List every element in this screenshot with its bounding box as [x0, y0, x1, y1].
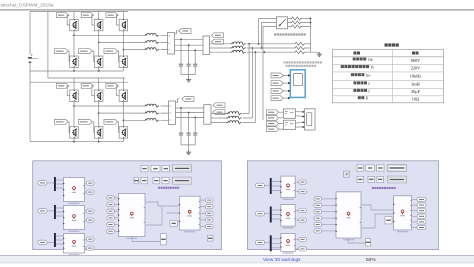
- constant/display block P1 top2: [151, 165, 160, 172]
- IGBT B2Q5 lower: [94, 127, 103, 139]
- wire load Rc to star: [306, 51, 311, 53]
- wire P1 bottom stub: [132, 236, 161, 242]
- wire measurement2 to goto: [176, 99, 180, 103]
- wire B1 phase B: [99, 41, 144, 43]
- node B1 phase 3 junction: [123, 49, 125, 51]
- wire P2 block-outs row2: [295, 211, 299, 221]
- wire P2 mux-block row1: [272, 182, 281, 191]
- subsystem P2 phase-leg 2: [280, 205, 295, 229]
- wire B1 phase C: [123, 49, 143, 51]
- goto tag Iabc1: [211, 33, 223, 38]
- svg-text:View 33 warnings: View 33 warnings: [263, 257, 301, 263]
- terminator P1: [207, 236, 213, 242]
- node B2 DC- junctions: [73, 141, 75, 143]
- table row label: [354, 81, 357, 84]
- table title 电路参数: [385, 43, 388, 46]
- wire P2 tag-mux row1: [265, 184, 270, 186]
- three-phase VI measurement block B1: [168, 33, 175, 55]
- wire P2 right1: [412, 199, 418, 201]
- inductor B2 L2a: [226, 112, 242, 115]
- capacitor C1 B2: [179, 133, 183, 135]
- svg-text:Vo: Vo: [370, 66, 374, 70]
- svg-text:L: L: [367, 82, 370, 86]
- goto tag P1 right3: [206, 211, 214, 215]
- wire load star bus: [311, 17, 320, 52]
- constant/display block P2 top5: [357, 176, 364, 182]
- controller subsystem P2: [336, 192, 361, 240]
- node B1 phase 1 junction: [73, 34, 75, 36]
- wire B1 leg 3: [122, 12, 124, 72]
- outport tag P1 row2b: [87, 218, 95, 222]
- wire P2 right3: [412, 210, 418, 212]
- resistor load Rb: [294, 46, 306, 49]
- from tag gate B2g1: [57, 83, 69, 88]
- inport tag P2 row2: [256, 212, 265, 216]
- wire B1 measurement to load block: [175, 39, 204, 50]
- wire scope input 2: [283, 82, 290, 84]
- wire B2 DC+ bus: [30, 81, 128, 83]
- wire B1 L2 to load: [247, 44, 294, 52]
- inductor B1L1c: [144, 48, 160, 51]
- wire bridge2 DC+ bus link: [48, 78, 126, 82]
- table row line: [333, 95, 444, 97]
- from tag scope input 3: [271, 89, 283, 94]
- node cap tap 3 B1: [194, 49, 196, 51]
- svg-text:fsw: fsw: [366, 74, 371, 78]
- table column divider: [391, 49, 393, 103]
- wire P2 controller to PWM: [361, 205, 394, 228]
- inductor B2 L2b: [226, 116, 242, 119]
- scope block lower: [305, 109, 315, 130]
- wire breaker-Ra: [288, 18, 311, 20]
- wire gate B1g4: [68, 51, 69, 62]
- table header separator: [333, 56, 444, 58]
- wire P2 tag-mux row2: [265, 213, 270, 215]
- svg-text:C: C: [368, 89, 371, 93]
- constant/display block P2 top4: [387, 165, 406, 172]
- from tag P2 mid3: [314, 210, 322, 214]
- outport tag P1 row3b: [87, 246, 95, 250]
- capacitor C3 B2: [193, 133, 197, 135]
- wire P1 right4: [200, 219, 206, 221]
- annotation above scope (line1): [284, 61, 286, 63]
- IGBT B2Q4 lower: [70, 127, 79, 139]
- wire P2 right6: [412, 227, 418, 229]
- from tag gate B2g3: [106, 83, 118, 88]
- constant/display block P1 top3: [162, 165, 170, 172]
- resistor load Rc: [294, 51, 306, 54]
- inductor B1 L2b: [230, 46, 246, 49]
- constant/display block P1 top5: [134, 177, 139, 184]
- wire gate B2g5: [92, 122, 94, 133]
- wire B2 DC- bus: [30, 141, 123, 143]
- wire B2 L1 to measurement: [161, 106, 169, 120]
- mux P2 row1: [270, 178, 272, 194]
- outport tag P1 row2a: [87, 209, 95, 213]
- constant/display block P2 top1: [357, 165, 364, 171]
- node B2 phase 3 junction: [123, 119, 125, 121]
- subsystem P1 phase-leg 1: [63, 178, 84, 204]
- panel 1 background: [33, 161, 222, 250]
- goto tag Iabc2: [213, 103, 225, 108]
- node B1 DC- junctions: [73, 70, 75, 72]
- wire P1 right3: [200, 212, 206, 214]
- annotation fault label: [274, 33, 276, 35]
- wire P1 mid1: [114, 197, 118, 199]
- goto tag P1 right4: [206, 218, 214, 222]
- inport tag P2 row1: [256, 183, 265, 187]
- goto tag Vab2: [213, 110, 225, 115]
- inport tag P1 row3: [38, 240, 47, 244]
- inport tag P1 row1: [38, 181, 47, 185]
- IGBT B1Q4 lower: [70, 56, 79, 68]
- outport tag P1 row1b: [87, 190, 95, 194]
- table row label: [341, 65, 344, 68]
- inductor B2L1c: [144, 118, 160, 121]
- from tag P1 mid3: [107, 209, 115, 213]
- wire P1 mux-block row2: [56, 208, 64, 216]
- goto tag P1 right2: [206, 205, 214, 209]
- annotation P1 purple text: [158, 187, 160, 189]
- outport tag P1 row1a: [87, 181, 95, 185]
- wire P2 mux-block row2: [272, 210, 281, 219]
- wire P2 block-outs row3: [295, 239, 299, 249]
- node cap tap 3 B2: [194, 117, 196, 119]
- from tag P2 mid4: [314, 216, 322, 220]
- wire gate B1g2: [92, 15, 95, 25]
- from tag P2 mid5: [314, 222, 322, 226]
- goto tag P1 right1: [206, 198, 214, 202]
- outport tag P2 row1b: [299, 190, 307, 194]
- mux P1 row3: [54, 233, 56, 247]
- svg-text:10kHz: 10kHz: [410, 74, 422, 79]
- wire gate B2g2: [92, 86, 95, 96]
- wire P2 mux-block row3: [272, 239, 281, 248]
- wire B2 phase A: [74, 105, 144, 107]
- from tag P1 mid4: [107, 216, 115, 220]
- table row label: [358, 96, 361, 99]
- wire P1 block-outs row2: [85, 211, 87, 220]
- goto tag P1 right5: [206, 224, 214, 228]
- wire gate B2g6: [118, 122, 119, 133]
- wire cap branch 1 B1: [180, 39, 182, 74]
- IGBT B1Q1 upper: [70, 19, 79, 31]
- wire P2 bottom stub: [348, 238, 366, 243]
- wire P1 controller to PWM: [146, 202, 179, 225]
- constant/display block P2 top7: [377, 176, 384, 182]
- wire P2 mid5: [322, 224, 337, 226]
- selector block group1: [283, 109, 295, 118]
- mini block P2: [366, 239, 371, 246]
- wire P1 mid3: [114, 210, 118, 212]
- three-phase VI measurement block B2: [169, 101, 176, 125]
- outport tag P2 row2b: [299, 218, 307, 222]
- table header 数值: [412, 52, 415, 55]
- from tag group1 a: [267, 110, 279, 115]
- capacitor C1 B1: [179, 64, 183, 66]
- wire B2 leg 1: [73, 82, 75, 142]
- from tag gate B1g1: [57, 13, 69, 18]
- series block B1 (three-phase series branch): [203, 36, 210, 55]
- wire breaker-Rb: [288, 22, 311, 24]
- wire load Rb to star: [306, 47, 311, 49]
- resistor fault Rb: [291, 21, 303, 24]
- wire B1 DC- bus: [30, 70, 123, 72]
- table row label: [354, 89, 357, 92]
- table row line: [333, 71, 444, 73]
- mux P1 row1: [54, 177, 56, 191]
- IGBT B2Q1 upper: [70, 90, 79, 102]
- wire breaker feed B: [262, 23, 277, 49]
- ground load star: [317, 52, 322, 56]
- inductor B1L1b: [144, 41, 160, 44]
- wire DC- rail: [47, 12, 49, 79]
- wire group1 to scope2: [295, 112, 304, 117]
- wire P1 mid2: [114, 204, 118, 206]
- mux P2 row3: [270, 235, 272, 251]
- wire cap branch 2 B2: [188, 113, 190, 145]
- constant/display block P2 top8: [387, 176, 406, 183]
- goto tag P2 right5: [417, 220, 426, 224]
- wire riser phase C B2: [254, 52, 256, 122]
- table row line: [333, 87, 444, 89]
- wire P1 tag-mux row1: [47, 182, 54, 184]
- from tag gate B1g6: [104, 49, 118, 54]
- constant/display block P1 top7: [153, 177, 160, 184]
- scope subsystem selected (blue): [290, 70, 305, 98]
- subsystem P2 phase-leg 1: [280, 176, 295, 200]
- wire B2 leg 2: [98, 82, 100, 142]
- node cap tap 2 B1: [188, 44, 190, 46]
- DC voltage source Vdc: [28, 54, 38, 63]
- inductor B2L1b: [144, 111, 160, 114]
- from tag gate B2g6: [104, 119, 118, 124]
- outport tag P2 row3b: [299, 247, 307, 251]
- outport tag P1 row3a: [87, 237, 95, 241]
- wire B2 phase C: [123, 119, 143, 121]
- wire P1 right5: [200, 226, 206, 228]
- IGBT B2Q3 upper: [119, 90, 128, 102]
- wire P1 right2: [200, 206, 206, 208]
- mini block P1 tall: [161, 234, 167, 245]
- wire B2 leg 3: [122, 82, 124, 142]
- wire P1 right1: [200, 199, 206, 201]
- svg-text:220V: 220V: [411, 65, 421, 70]
- IGBT B1Q3 upper: [119, 19, 128, 31]
- resistor load Ra: [294, 42, 306, 45]
- from tag P1 mid5: [107, 222, 115, 226]
- table row line: [333, 63, 444, 65]
- svg-text:30μF: 30μF: [411, 89, 421, 94]
- PWM subsystem P1: [179, 196, 200, 232]
- wire load Ra to star: [306, 43, 311, 45]
- node B1 phase 2 junction: [98, 42, 100, 44]
- svg-text:Vdc: Vdc: [368, 58, 374, 62]
- goto tag Vabc2: [182, 97, 194, 102]
- wire cap branch 1 B2: [180, 108, 182, 145]
- display P2: [344, 171, 350, 177]
- wire P1 block-outs row1: [85, 183, 87, 192]
- from tag gate B1g5: [79, 49, 93, 54]
- constant/display block P1 top8: [162, 177, 169, 184]
- wire P1 tag-mux row2: [47, 210, 54, 212]
- capacitor C2 B2: [187, 133, 191, 135]
- wire DC+ rail: [29, 12, 31, 142]
- IGBT B1Q2 upper: [94, 19, 103, 31]
- wire P1 mux-block row3: [56, 236, 64, 244]
- from tag gate B1g3: [106, 13, 118, 18]
- outport tag P2 row3a: [299, 237, 307, 241]
- node cap tap 1 B2: [180, 107, 182, 109]
- from tag gate B1g2: [81, 13, 93, 18]
- wire P2 mid6: [322, 230, 337, 232]
- panel 2 background: [247, 161, 438, 250]
- IGBT B2Q6 lower: [119, 127, 128, 139]
- wire breaker feed A: [259, 19, 277, 44]
- wire P1 tag-mux row3: [47, 241, 54, 243]
- table row label: [353, 58, 356, 61]
- constant/display block P1 top1: [141, 165, 148, 172]
- inport tag P2 row3: [256, 240, 265, 244]
- wire P1 block-outs row3: [85, 239, 87, 248]
- from tag scope input 1: [271, 73, 283, 78]
- wire cap star bus B1: [181, 75, 195, 78]
- from tag gate B2g5: [79, 119, 93, 124]
- goto tag P2 right1: [417, 197, 426, 201]
- wire scope input 3: [283, 90, 290, 92]
- wire gate B2g3: [117, 86, 120, 96]
- node B2 phase 2 junction: [98, 112, 100, 114]
- wire B1 out rows: [210, 44, 231, 52]
- from tag gate B1g4: [55, 49, 69, 54]
- wire P1 mid6: [114, 230, 118, 232]
- from tag P2 mid1: [314, 197, 322, 201]
- wire group2 to scope2: [295, 122, 304, 127]
- from tag scope input 2: [271, 81, 283, 86]
- wire P2 tag-mux row3: [265, 242, 270, 244]
- subsystem P2 phase-leg 3: [280, 233, 295, 253]
- from tag P1 mid2: [107, 203, 115, 207]
- constant/display block P2 top3: [377, 165, 385, 171]
- svg-text:800V: 800V: [411, 58, 421, 63]
- from tag group2 b: [267, 127, 279, 132]
- wire B2 out rows: [211, 114, 226, 123]
- constant/display block P1 top4: [173, 165, 192, 172]
- IGBT B2Q2 upper: [94, 90, 103, 102]
- toolbar separator line: [0, 9, 474, 11]
- annotation above scope (line2): [286, 65, 288, 67]
- node cap tap 1 B1: [180, 38, 182, 40]
- mux P1 row2: [54, 205, 56, 219]
- wire P2 mid2: [322, 204, 337, 206]
- constant/display block P1 top9: [173, 177, 192, 184]
- inport tag P1 row2: [38, 209, 47, 213]
- wire breaker-Rc: [288, 26, 311, 28]
- wire B1 leg 1: [73, 12, 75, 72]
- inductor B2 L2c: [226, 121, 242, 124]
- mux P2 row2: [270, 207, 272, 223]
- table frame: [333, 49, 444, 103]
- capacitor C3 B1: [193, 64, 197, 66]
- from tag P2 mid2: [314, 203, 322, 207]
- svg-text:50%: 50%: [366, 257, 376, 263]
- wire cap branch 3 B1: [194, 50, 196, 74]
- resistor fault Ra: [291, 17, 303, 20]
- wire P2 mid4: [322, 217, 337, 219]
- svg-text:R: R: [365, 97, 369, 101]
- inductor B2L1a: [144, 104, 160, 107]
- wire P2 right2: [412, 204, 418, 206]
- from tag gate B2g4: [55, 119, 69, 124]
- goto tag Vab1: [211, 39, 223, 44]
- svg-text:10Ω: 10Ω: [412, 97, 420, 102]
- wire scope input 4: [283, 97, 290, 99]
- wire B2 phase B: [99, 112, 144, 114]
- svg-text:3mH: 3mH: [411, 82, 420, 87]
- node B2 phase 1 junction: [73, 105, 75, 107]
- display P1 small: [170, 221, 178, 227]
- wire group1 tags to block: [279, 112, 284, 118]
- goto tag P2 right2: [417, 203, 426, 207]
- from tag gate B2g2: [81, 83, 93, 88]
- inductor B1 L2a: [230, 42, 246, 45]
- wire B2 measurement to series block: [176, 108, 204, 118]
- wire P2 block-outs row1: [295, 182, 299, 192]
- ground B2 filter: [186, 150, 191, 154]
- wire P1 mux-block row1: [56, 180, 64, 188]
- wire gate B1g6: [118, 51, 119, 62]
- ground B1 filter: [186, 78, 191, 82]
- wire scope input 1: [283, 74, 290, 76]
- wire B2 L2 to risers: [243, 114, 255, 123]
- wire P2 right5: [412, 221, 418, 223]
- outport tag P2 row1a: [299, 180, 307, 184]
- wire P1 mid4: [114, 217, 118, 219]
- wire P1 mid5: [114, 224, 118, 226]
- from tag P1 mid1: [107, 196, 115, 200]
- wire cap star bus B2: [181, 145, 195, 150]
- status bar: [0, 255, 474, 263]
- node cap tap 2 B2: [188, 112, 190, 114]
- wire B1 L1 to measurement: [161, 35, 168, 49]
- three-phase breaker block: [277, 17, 288, 29]
- rate block P2: [385, 217, 392, 224]
- wire P2 mid1: [322, 198, 337, 200]
- capacitor C2 B1: [187, 64, 191, 66]
- svg-text:stischul_DSPWM_2018a: stischul_DSPWM_2018a: [1, 2, 54, 8]
- wire P2 mid3: [322, 211, 337, 213]
- goto tag P2 right3: [417, 209, 426, 213]
- wire cap branch 3 B2: [194, 118, 196, 145]
- wire group2 tags to block: [279, 124, 284, 130]
- constant/display block P2 top2: [366, 165, 375, 171]
- constant/display block P2 top6: [368, 176, 375, 182]
- table row label: [351, 73, 354, 76]
- wire breaker feed C: [263, 27, 277, 121]
- wire gate B2g1: [67, 86, 70, 96]
- table header 参数: [354, 52, 357, 55]
- series block B2: [204, 105, 211, 125]
- subsystem P1 phase-leg 2: [63, 206, 84, 232]
- IGBT B1Q6 lower: [119, 56, 128, 68]
- wire gate B2g4: [68, 122, 69, 133]
- wire riser phase B B2: [251, 48, 253, 118]
- wire gate B1g5: [92, 51, 94, 62]
- from tag P1 mid6: [107, 229, 115, 233]
- selector block group2: [283, 120, 295, 129]
- table row line: [333, 80, 444, 82]
- inductor B1L1a: [144, 33, 160, 36]
